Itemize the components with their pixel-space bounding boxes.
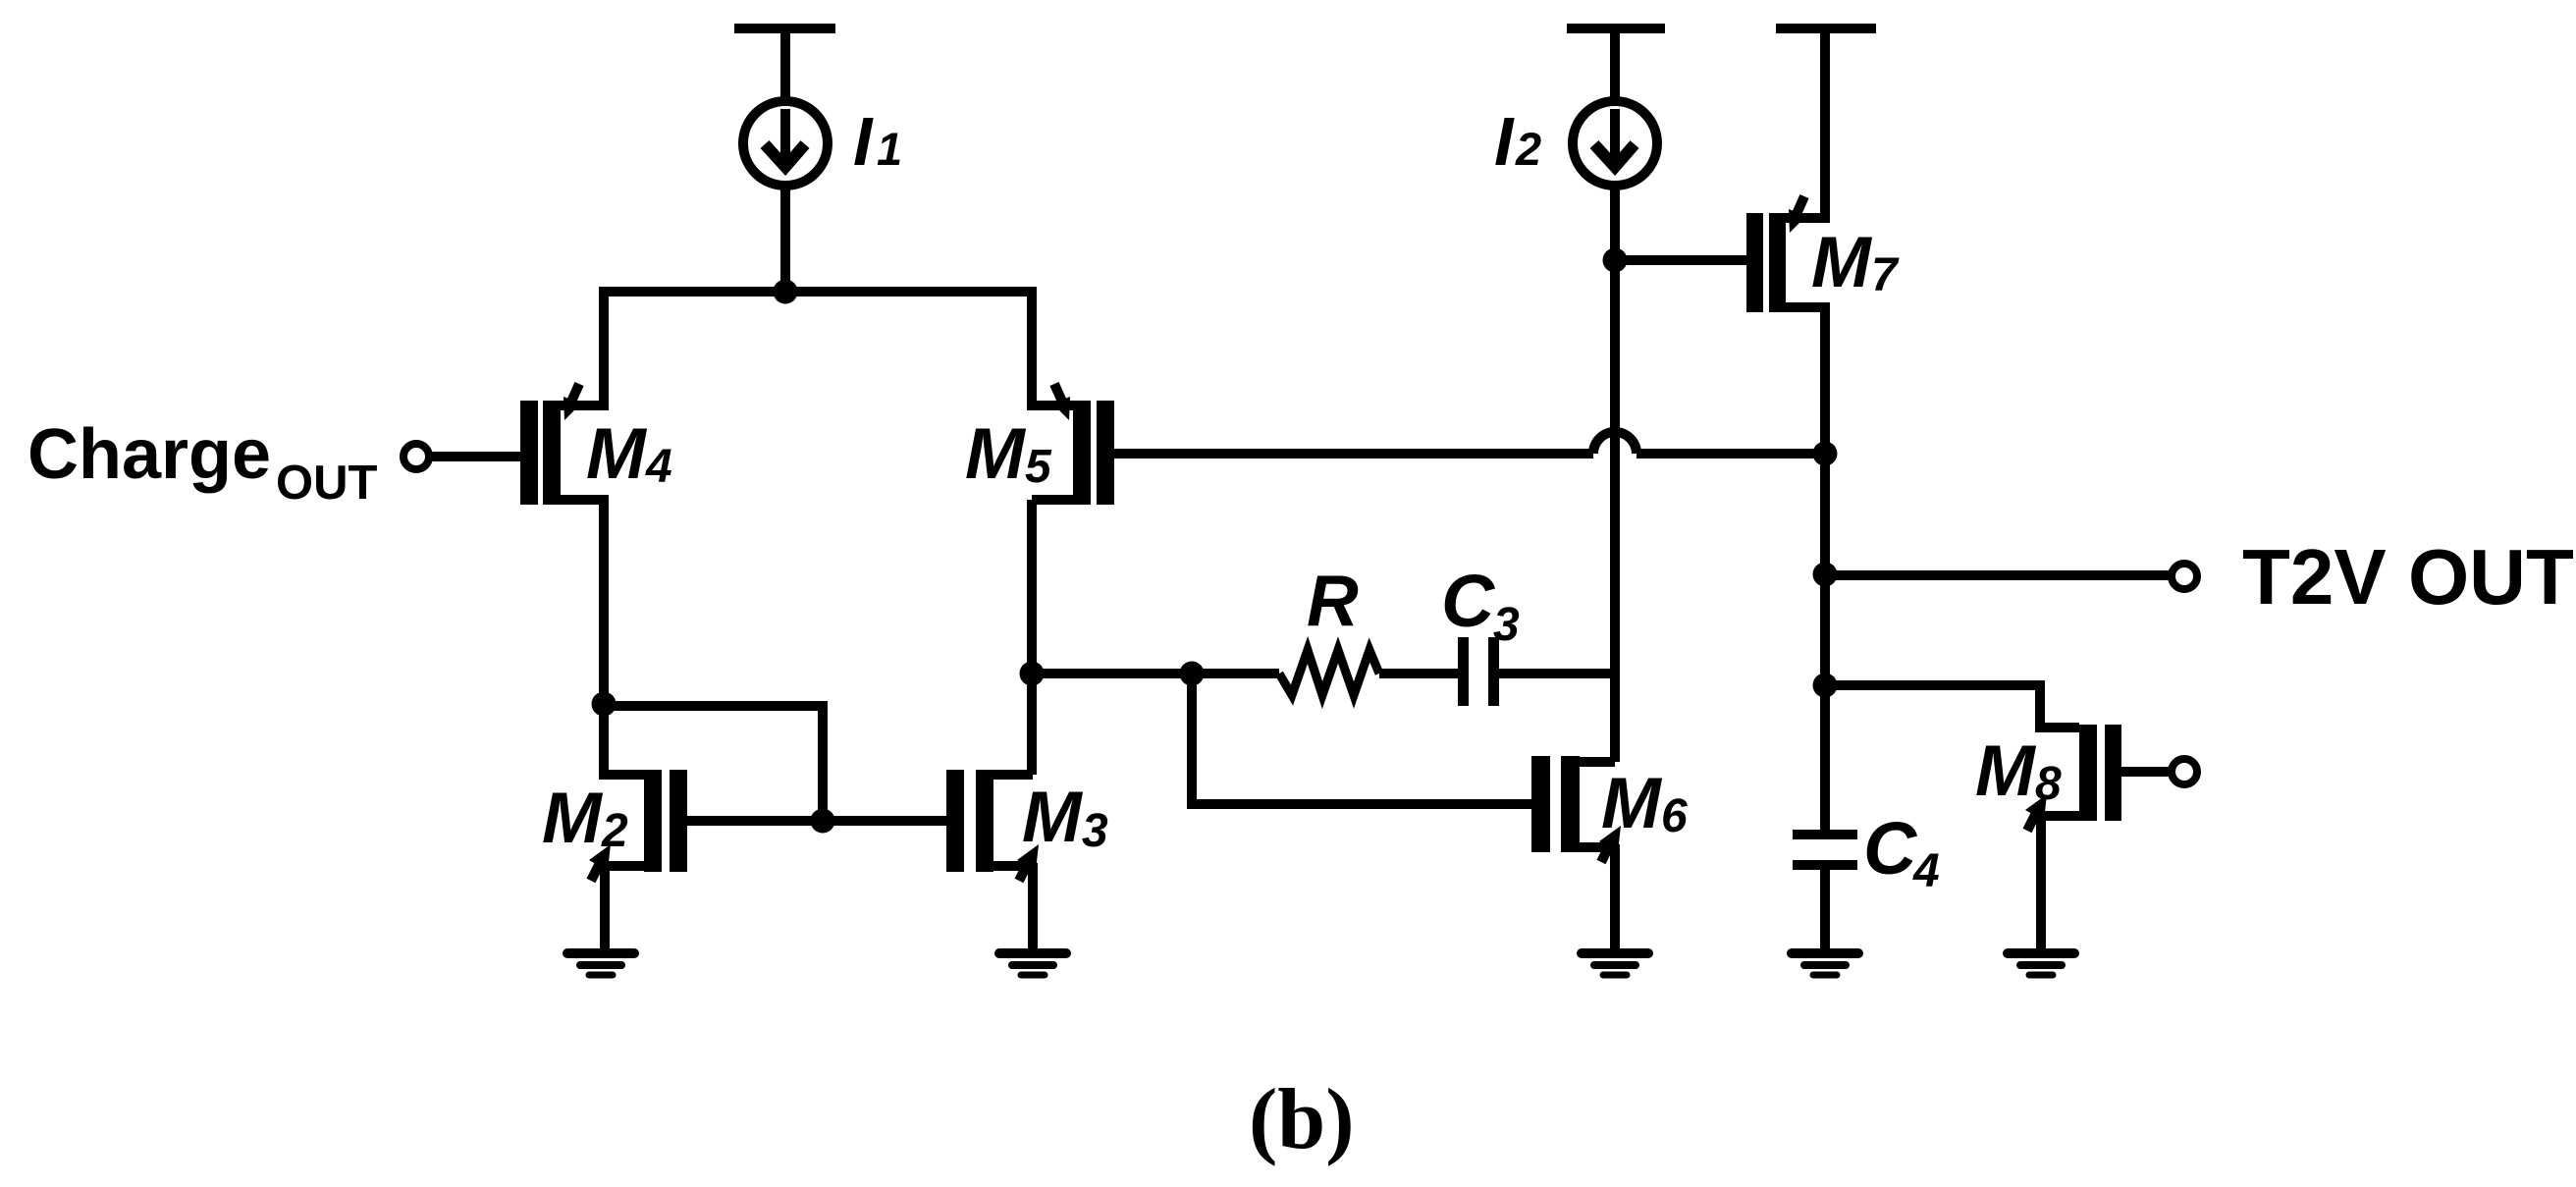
wire T2V OUT [1825, 570, 2169, 580]
svg-text:OUT: OUT [276, 457, 378, 510]
wire M7 drain [1786, 307, 1825, 459]
terminal T2V OUT [2172, 564, 2197, 589]
wire M5 gate to M7 drain with hop [1114, 449, 1593, 459]
wire M7 gate [1615, 255, 1746, 265]
svg-text:4: 4 [1912, 845, 1940, 897]
wire M6 source to ground [1580, 842, 1615, 852]
svg-text:M: M [1022, 778, 1084, 857]
wire M3 source to ground [993, 861, 1033, 871]
svg-text:M: M [586, 414, 648, 494]
svg-text:C: C [1441, 560, 1496, 642]
svg-text:3: 3 [1493, 599, 1520, 651]
node gate tap junction [811, 809, 835, 834]
svg-text:5: 5 [1025, 441, 1052, 493]
svg-text:6: 6 [1661, 790, 1688, 842]
svg-text:R: R [1307, 562, 1359, 641]
svg-text:C: C [1863, 807, 1918, 890]
current source I1 [743, 101, 828, 186]
svg-text:(b): (b) [1249, 1072, 1355, 1167]
svg-text:I: I [853, 103, 874, 180]
svg-text:4: 4 [645, 441, 672, 493]
transistor M7 [1746, 196, 1806, 312]
wire M2 source to ground [600, 861, 644, 871]
ground (M2) [567, 953, 634, 975]
svg-text:I: I [1494, 103, 1515, 180]
node M5/M3 drain junction [1020, 662, 1045, 686]
node I1/rail junction [774, 280, 798, 304]
ground (M6) [1582, 953, 1648, 975]
wire M5 source [1032, 287, 1079, 405]
wire M6 gate branch [1192, 674, 1531, 804]
node M7 drain / M5 gate junction [1813, 442, 1838, 466]
capacitor C3 [1458, 637, 1499, 706]
ground (M3) [999, 953, 1066, 975]
supply rail bar (I2 branch) [1567, 24, 1665, 33]
wire M6 drain [1580, 757, 1615, 767]
node I2 / M7 gate junction [1603, 248, 1628, 273]
wire top rail [599, 287, 1037, 297]
wire I1 to rail [780, 185, 790, 297]
wire M8 gate [2121, 767, 2171, 777]
svg-text:M: M [965, 414, 1027, 494]
transistor M5 [1052, 384, 1114, 505]
resistor R [1279, 650, 1379, 695]
svg-text:M: M [1811, 223, 1873, 302]
svg-text:2: 2 [1515, 123, 1541, 175]
node M4 drain / M2 drain junction [592, 692, 617, 717]
supply rail bar (M7 source) [1776, 24, 1876, 33]
svg-text:1: 1 [877, 123, 902, 175]
terminal ChargeOUT [403, 444, 429, 469]
transistor M4 [520, 384, 581, 505]
node T2V OUT junction [1813, 563, 1838, 587]
wire M5 drain node [1032, 495, 1079, 505]
svg-text:8: 8 [2035, 758, 2062, 810]
svg-text:Charge: Charge [27, 415, 271, 494]
transistor M2 [589, 770, 687, 881]
svg-text:2: 2 [601, 805, 628, 857]
svg-text:M: M [542, 779, 604, 858]
node R branch junction [1180, 662, 1205, 686]
wire R to C3 [1379, 669, 1458, 678]
wire diode tap to gates [604, 706, 823, 826]
node C4 junction [1813, 674, 1838, 698]
wire M4 drain [557, 500, 604, 709]
terminal M8 gate [2172, 759, 2197, 784]
svg-text:M: M [1601, 764, 1663, 843]
svg-text:7: 7 [1871, 249, 1900, 301]
wire I2 to node [1610, 185, 1620, 265]
svg-text:T2V OUT: T2V OUT [2242, 533, 2574, 620]
wire M4 gate [429, 452, 520, 461]
current source I2 [1573, 101, 1657, 186]
svg-text:3: 3 [1082, 805, 1108, 857]
wire C3 to M6 drain line [1499, 669, 1620, 678]
wire M3 drain [993, 770, 1033, 780]
transistor M3 [946, 770, 1039, 881]
capacitor C4 [1793, 685, 1857, 948]
wire M2 drain [604, 704, 648, 775]
wire M8 source to ground [2040, 811, 2079, 821]
ground (C4) [1792, 953, 1858, 975]
transistor M6 [1531, 756, 1621, 862]
wire output branch vertical [1820, 454, 1830, 690]
wire M2-M3 gates [687, 816, 946, 826]
wire compensation node [1032, 669, 1279, 678]
supply rail bar (I1 branch) [734, 24, 835, 33]
transistor M8 [2025, 725, 2121, 831]
wire M8 drain branch [1825, 685, 2079, 728]
wire M7 source [1786, 33, 1825, 218]
svg-text:M: M [1975, 731, 2037, 811]
wire M4 source [557, 287, 604, 405]
ground (M8) [2008, 953, 2074, 975]
